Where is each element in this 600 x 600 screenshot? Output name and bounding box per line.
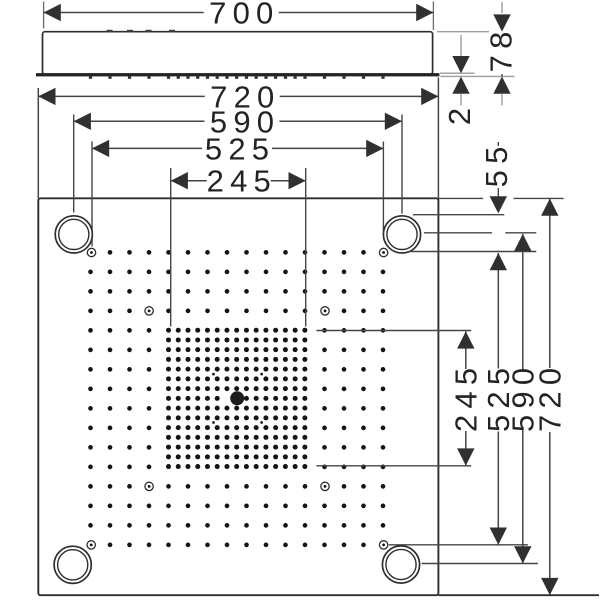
side view: nozzle ticks under plate (89, 76, 92, 78)
dim 245 horizontal: dimension line (171, 180, 306, 182)
svg-text:245: 245 (449, 362, 484, 432)
central outlet dot (230, 391, 244, 405)
corner lamp bottom-left (54, 546, 91, 583)
dense nozzle grid dots (166, 328, 171, 333)
ref line: lamp center top (424, 232, 492, 234)
plan view: shower panel outline (38, 198, 438, 595)
svg-text:78: 78 (484, 25, 519, 72)
dim 78: arrows (493, 14, 510, 31)
dim 525 horizontal: dimension line (92, 147, 383, 149)
dim 590 vertical: dimension line (522, 234, 524, 564)
dim 720 vertical: dimension line (549, 199, 551, 596)
corner lamp bottom-right (382, 546, 419, 583)
ref line: lamp center bottom (422, 563, 538, 565)
dim 78: dimension line with tails (501, 2, 503, 13)
side view: shower body outline (43, 32, 433, 75)
dim 55: dimension line (497, 142, 499, 198)
svg-text:525: 525 (205, 131, 275, 166)
ref line: dense grid bottom (316, 465, 471, 467)
dim 700: dimension line (44, 12, 434, 14)
dim 700: arrows (44, 4, 61, 21)
side view: base spray plate (thick) (36, 73, 439, 76)
ref line: lamp top tangent (413, 214, 504, 216)
dim 2: arrows and tails (460, 35, 462, 56)
svg-text:2: 2 (442, 102, 477, 125)
dim 720 horizontal: dimension line (38, 95, 438, 97)
dim 2: reference line (440, 72, 475, 74)
circled pilot nozzles (87, 248, 95, 256)
ref line: panel top edge extension (438, 197, 483, 199)
svg-text:700: 700 (209, 0, 279, 31)
ref line: panel bottom edge extension (438, 594, 599, 596)
dim 245 horizontal: extension lines (170, 168, 172, 327)
dim 245 vertical: dimension line (465, 331, 467, 465)
dim 590 horizontal: dimension line (74, 120, 402, 122)
dim 525 horizontal: extension lines (91, 142, 93, 247)
sparse nozzle grid dots (108, 250, 113, 255)
small intermediate nozzles (212, 373, 215, 376)
svg-text:55: 55 (479, 140, 514, 187)
dim 525 vertical: dimension line (497, 253, 499, 545)
dim 590 horizontal: extension lines (73, 115, 75, 213)
ref line: dense grid top (316, 330, 471, 332)
dim 700: extension lines (43, 2, 45, 29)
dim 55: arrow (490, 196, 507, 213)
dim 78: reference lines (437, 31, 515, 33)
dim 720 horizontal: extension lines (37, 88, 39, 198)
ref line: pilot nozzle row bottom (389, 544, 528, 546)
corner lamp top-right (383, 216, 420, 253)
ref line: pilot nozzle row top (410, 251, 537, 253)
side view: top detail bumps (107, 30, 113, 33)
svg-text:245: 245 (207, 164, 277, 199)
svg-text:720: 720 (533, 362, 568, 432)
corner lamp top-left (55, 216, 92, 253)
